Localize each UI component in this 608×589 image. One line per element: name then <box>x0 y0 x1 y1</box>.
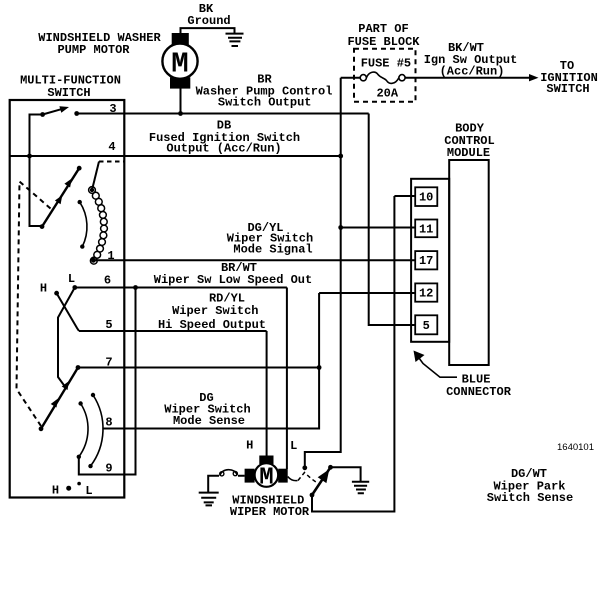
wiper motor left lead with choke <box>208 476 244 493</box>
BCM pin box 5 <box>415 315 437 334</box>
svg-text:8: 8 <box>105 416 112 430</box>
svg-text:FUSE BLOCK: FUSE BLOCK <box>347 35 420 49</box>
delay coil R1 (spring) <box>89 187 108 265</box>
wire: BCM pin 10 <box>394 195 416 197</box>
position dots at bottom H . L <box>66 486 71 491</box>
svg-text:1640101: 1640101 <box>557 442 594 453</box>
dashed mech link at top of coil <box>99 161 124 163</box>
svg-text:H: H <box>246 439 253 453</box>
svg-text:H: H <box>40 282 47 296</box>
coil top node <box>90 188 94 192</box>
wire: fuse output to ignition switch <box>405 77 530 79</box>
svg-text:L: L <box>290 439 297 453</box>
svg-text:Hi Speed Output: Hi Speed Output <box>158 318 266 332</box>
svg-text:M: M <box>259 465 273 492</box>
wire: pin 8 (DG) from outer arc to riser <box>103 428 319 430</box>
delay switch arm (to pin 4 feed) <box>42 168 79 226</box>
wire: BCM pin 12 <box>319 292 416 294</box>
wiper motor right lead <box>288 477 298 481</box>
delay switch arm arrowhead 2 <box>55 195 62 204</box>
multi-function switch box <box>10 100 125 498</box>
node: junction pin7 / mode riser <box>317 365 322 370</box>
node: junction washer motor / pin3 wire <box>178 111 183 116</box>
arrowhead to ignition switch <box>529 74 539 81</box>
svg-text:CONNECTOR: CONNECTOR <box>446 385 512 399</box>
wire: pin 9 loop to pin 6 <box>79 288 136 475</box>
svg-text:SWITCH: SWITCH <box>546 82 589 96</box>
svg-text:4: 4 <box>108 140 115 154</box>
blue connector body <box>411 179 449 342</box>
svg-text:PUMP MOTOR: PUMP MOTOR <box>57 43 130 57</box>
L riser (pin 6 to wiper motor low brush) <box>286 288 288 470</box>
svg-text:PART OF: PART OF <box>358 22 408 36</box>
BCM pin box 12 <box>415 283 437 301</box>
DB riser (fuse to park contact) <box>305 78 341 466</box>
fuse F5 element <box>366 72 399 83</box>
fuse block dashed box <box>354 49 416 102</box>
inner arc end nodes <box>78 401 82 405</box>
park switch arm <box>312 467 331 495</box>
BCM pin box 17 <box>415 251 437 269</box>
svg-text:Mode Sense: Mode Sense <box>173 414 245 428</box>
ground G1 (washer pump) <box>226 34 244 46</box>
svg-text:L: L <box>68 272 75 286</box>
washer switch S1: arrowhead <box>59 106 69 113</box>
wire: BCM pin 11 <box>341 227 416 229</box>
link diagonal to coil top <box>92 162 99 191</box>
delay arc end nodes <box>78 200 82 204</box>
dashed mechanical linkage left <box>17 182 51 427</box>
blue connector leader arrow <box>415 353 457 378</box>
wire: pin 1 (DG/YL) to BCM pin 17 <box>93 259 416 261</box>
node: junction DB riser / pin4 wire <box>338 154 343 159</box>
washer switch S1: arm <box>43 109 63 115</box>
outer arc end nodes <box>91 393 95 397</box>
ground G3 (park switch) <box>352 482 369 494</box>
svg-text:20A: 20A <box>376 87 398 101</box>
svg-text:Switch Output: Switch Output <box>218 96 312 110</box>
mode riser (pin12/pin7/pin8) <box>104 293 319 429</box>
mode switch arrowhead 1 <box>62 381 69 390</box>
delay wiper arc <box>80 202 87 247</box>
svg-text:5: 5 <box>105 318 112 332</box>
svg-text:Ground: Ground <box>187 14 230 28</box>
washer switch S1: pivot node <box>40 112 45 117</box>
wire: pin 3 (BR) from contact to BR riser corner <box>77 113 369 115</box>
delay switch arm pivot node <box>40 224 45 229</box>
washer switch S1: contact node (pin 3) <box>74 111 79 116</box>
svg-text:MODULE: MODULE <box>447 146 490 160</box>
delay switch arm tip node <box>77 166 82 171</box>
svg-text:H: H <box>52 484 59 498</box>
svg-text:FUSE #5: FUSE #5 <box>361 57 411 71</box>
svg-text:10: 10 <box>419 191 433 205</box>
washer pump motor wire to ground <box>181 28 235 33</box>
wire: washer motor lead down to pin3 wire <box>180 89 182 114</box>
DG/WT riser (BCM pin10 to park arm pivot) <box>312 196 394 512</box>
ground G2 (wiper motor) <box>199 493 219 506</box>
wire: L contact diagonal down to mode arm <box>58 288 75 389</box>
svg-text:9: 9 <box>105 462 112 476</box>
wire: pin 6 (BR/WT) from L contact to L riser <box>75 287 287 289</box>
svg-text:SWITCH: SWITCH <box>47 86 90 100</box>
wire: H contact diagonal to pin 5 <box>57 293 79 331</box>
node: junction washer-switch feed on pin4 wire <box>27 154 32 159</box>
svg-text:7: 7 <box>105 356 112 370</box>
node: junction DB riser / BCM pin 11 wire <box>338 225 343 230</box>
wire: pin 4 (DB) from box left edge to DB riser <box>10 155 341 157</box>
mode switch contact node (pin 7) <box>76 365 81 370</box>
wire: park switch to ground <box>331 467 361 481</box>
wire: pin 5 (RD/YL) to H riser <box>79 330 267 332</box>
svg-text:M: M <box>171 48 188 81</box>
hi/lo switch: L contact node <box>72 285 77 290</box>
BCM pin box 10 <box>415 187 437 206</box>
svg-text:5: 5 <box>423 319 430 333</box>
svg-text:17: 17 <box>419 254 433 268</box>
mode switch outer arc <box>91 395 104 466</box>
svg-text:Switch Sense: Switch Sense <box>487 491 573 505</box>
svg-text:L: L <box>85 484 92 498</box>
washer pump motor M1 <box>162 33 197 89</box>
park switch dashed link <box>298 473 318 484</box>
mode switch arrowhead 2 <box>51 399 58 408</box>
mode switch arm <box>41 368 78 429</box>
svg-text:1: 1 <box>107 249 114 263</box>
mode switch inner arc <box>79 404 88 457</box>
coil bottom node (pin 1) <box>91 258 96 263</box>
fuse F5 terminals <box>360 75 366 81</box>
svg-text:Output (Acc/Run): Output (Acc/Run) <box>166 142 281 156</box>
body control module case <box>449 160 489 365</box>
svg-text:Mode Signal: Mode Signal <box>233 243 312 257</box>
svg-text:6: 6 <box>104 274 111 288</box>
svg-text:3: 3 <box>109 102 116 116</box>
park switch arm tip node <box>328 465 333 470</box>
park switch arm pivot node <box>310 493 315 498</box>
svg-text:Wiper Switch: Wiper Switch <box>172 304 258 318</box>
BCM pin box 11 <box>415 220 437 238</box>
svg-text:12: 12 <box>419 287 433 301</box>
svg-text:WIPER MOTOR: WIPER MOTOR <box>230 505 310 519</box>
svg-text:11: 11 <box>419 223 433 237</box>
choke hump <box>220 470 237 476</box>
washer switch S1: feed wire from pivot to pin4 <box>30 115 43 227</box>
delay switch arm arrowhead 1 <box>64 179 71 188</box>
BR riser (pin3 to BCM pin 5) <box>369 114 416 326</box>
hi/lo switch: H contact node <box>54 291 59 296</box>
park switch arrowhead <box>318 469 330 483</box>
svg-text:Wiper Sw Low Speed Out: Wiper Sw Low Speed Out <box>154 273 312 287</box>
wire: fuse feed from DB riser <box>341 77 361 79</box>
H riser (pin 5 to wiper motor hi brush) <box>266 331 268 456</box>
wire: pin 7 wire to riser junction <box>78 367 319 369</box>
svg-text:(Acc/Run): (Acc/Run) <box>440 65 505 79</box>
node: junction pin6/pin9 riser <box>133 285 138 290</box>
mode switch arm pivot node <box>39 426 44 431</box>
wiper motor M2 <box>245 456 288 492</box>
park switch contact A node <box>302 465 307 470</box>
